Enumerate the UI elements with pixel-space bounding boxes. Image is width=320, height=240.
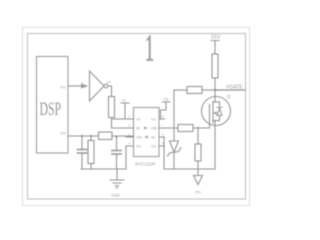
svg-text:6: 6: [162, 133, 164, 137]
arrowhead on IO1 wire: [81, 84, 89, 89]
Q1 body diode: [217, 102, 222, 121]
wire sense line left: [174, 89, 187, 91]
svg-text:1: 1: [128, 115, 130, 119]
svg-text:8: 8: [162, 115, 164, 119]
Q1 source stub: [213, 120, 220, 122]
node G junction: [197, 127, 199, 129]
svg-text:15V: 15V: [211, 35, 221, 41]
wire sense vertical: [173, 90, 175, 141]
wire U1 IA loop down: [159, 137, 164, 169]
svg-text:O1: O1: [107, 80, 111, 84]
svg-text:7: 7: [162, 124, 164, 128]
resistor R7 (sense): [187, 87, 202, 94]
svg-text:PG: PG: [195, 190, 201, 195]
svg-text:VGATE: VGATE: [226, 85, 243, 91]
ground GND (earth): [116, 169, 118, 180]
node A junction: [81, 135, 83, 137]
wire left ground rail: [81, 168, 126, 170]
sheet frame outer: [23, 28, 250, 206]
wire DSP IO1 to buffer input: [68, 85, 82, 87]
power ground PG (open arrow): [197, 169, 199, 176]
svg-text:IB: IB: [136, 126, 140, 131]
U1 pin stubs right: [159, 119, 165, 146]
wire DSP IO2 to R2: [68, 135, 99, 137]
resistor R2 (horizontal series): [99, 132, 113, 140]
buffer U3 (triangle): [90, 71, 105, 101]
svg-text:IO1: IO1: [60, 86, 66, 90]
svg-text:G1: G1: [136, 144, 142, 149]
wire R4 to gate node: [193, 127, 210, 129]
capacitor C1: [81, 136, 83, 149]
Q1 drain stub: [213, 101, 220, 103]
U1 pin stubs left: [126, 119, 134, 146]
node D junction: [214, 89, 216, 91]
capacitor C2: [116, 137, 118, 150]
svg-text:DSP: DSP: [40, 99, 62, 119]
resistor R6 (drain pullup): [212, 54, 218, 78]
wire buffer output to R1: [108, 86, 112, 97]
sheet frame inner: [28, 34, 246, 200]
Q1 gate bar: [209, 105, 211, 122]
svg-text:Q: Q: [227, 94, 231, 99]
wire U1 pin G1 loop: [126, 146, 134, 169]
svg-text:OA: OA: [136, 135, 142, 140]
svg-text:IO2: IO2: [60, 132, 66, 136]
DSP block U2: [37, 57, 69, 154]
wire U1 OB to R4: [159, 127, 178, 129]
wire right ground rail: [164, 168, 215, 170]
wire R1 to U1 pin IB: [112, 118, 134, 129]
resistor R3 (vertical): [90, 136, 92, 141]
zener D1: [170, 141, 179, 152]
svg-text:OB: OB: [151, 126, 157, 131]
node B junction: [90, 135, 92, 137]
wire V1 rail: [113, 118, 134, 120]
U1 arrow left: [144, 136, 148, 139]
svg-text:+5: +5: [122, 99, 126, 103]
resistor R1 (vertical): [109, 97, 115, 118]
gate driver U1: [134, 108, 160, 157]
svg-text:IA: IA: [151, 135, 155, 140]
U1 arrow right: [144, 127, 148, 130]
wire R2 to U1 pin OA: [112, 136, 134, 137]
wire U1 pin G2 stub: [159, 145, 164, 147]
wire Q1 source to rail: [214, 121, 216, 170]
Q1 channel bar: [212, 102, 214, 124]
svg-text:V2: V2: [151, 117, 157, 122]
MOSFET Q1: [214, 90, 216, 102]
svg-text:4: 4: [128, 142, 130, 146]
Q1 body stub with arrow: [215, 112, 217, 114]
resistor R4 (gate series): [178, 125, 193, 132]
wire node D to VGATE: [215, 89, 245, 91]
svg-text:GND: GND: [111, 193, 120, 198]
svg-text:V1: V1: [136, 117, 142, 122]
svg-text:+15: +15: [163, 98, 169, 102]
wire R7 to node D: [202, 89, 215, 91]
buffer output bubble: [104, 84, 108, 88]
svg-text:1: 1: [145, 29, 154, 70]
svg-text:IN7C12DR: IN7C12DR: [135, 162, 155, 167]
svg-text:2: 2: [128, 124, 130, 128]
resistor R5 (gate pulldown): [197, 128, 199, 144]
wire gate node to MOSFET gate: [209, 121, 211, 128]
svg-text:G2: G2: [151, 144, 157, 149]
